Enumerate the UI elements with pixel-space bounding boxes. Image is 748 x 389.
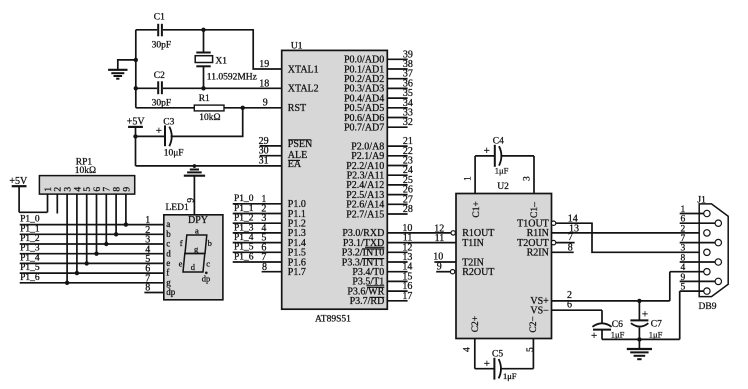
wire display dp stub [144, 283, 163, 294]
capacitor C4 [484, 137, 509, 176]
power +5V (reset) [127, 117, 146, 137]
svg-text:8: 8 [145, 283, 150, 294]
wire R1IN pin 13 to DB9 pin2 [552, 224, 704, 235]
wire C4 net right [500, 155, 534, 157]
node RP1 pin 4 junction [75, 271, 79, 275]
svg-text:18: 18 [259, 78, 269, 89]
svg-text:6: 6 [567, 300, 572, 311]
wire RST net [136, 107, 282, 109]
svg-text:P2.7/A15: P2.7/A15 [346, 209, 384, 220]
svg-text:4: 4 [463, 347, 473, 352]
node RP1 pin 5 junction [85, 261, 89, 265]
wire net P1_6 at U1 pin 7 [233, 252, 282, 263]
svg-text:3: 3 [64, 187, 74, 192]
svg-text:P1_5: P1_5 [234, 243, 254, 253]
svg-text:2: 2 [54, 187, 64, 192]
wire net P1_4 to display segment e [20, 253, 164, 265]
crystal X1 [195, 30, 227, 89]
svg-text:32: 32 [403, 117, 413, 128]
svg-text:8: 8 [262, 262, 267, 273]
svg-text:C5: C5 [492, 350, 503, 360]
capacitor C1 [152, 12, 172, 50]
wire net P1_2 to display segment c [20, 234, 164, 246]
svg-text:R1: R1 [199, 94, 210, 104]
svg-text:6: 6 [681, 215, 686, 225]
svg-text:+: + [591, 330, 597, 342]
node X1 bottom junction [201, 86, 205, 90]
wire RP1 pin 5 vertical [86, 194, 88, 263]
svg-text:9: 9 [187, 198, 197, 203]
wire C3 net right of cap [171, 108, 243, 137]
svg-text:C4: C4 [493, 137, 504, 147]
wire DB9 pin 8 stub [680, 253, 715, 263]
svg-text:e: e [179, 259, 183, 269]
svg-text:P1_2: P1_2 [20, 234, 40, 244]
svg-text:C3: C3 [163, 118, 174, 128]
svg-text:P1_4: P1_4 [20, 253, 40, 263]
wires U1 port2 pins 21-28 [387, 136, 413, 215]
svg-text:U1: U1 [291, 41, 303, 51]
svg-text:3: 3 [681, 244, 686, 254]
node ground stub junction [134, 58, 138, 62]
svg-text:4: 4 [73, 187, 83, 192]
svg-text:P1_0: P1_0 [234, 194, 254, 204]
svg-text:C6: C6 [612, 320, 623, 330]
wire DB9 pin 6 stub [680, 215, 715, 225]
svg-text:d: d [191, 262, 196, 272]
wire net P1_6 to display segment g [20, 273, 164, 285]
wire C4 net left [475, 155, 495, 157]
wire RXD to R1OUT pin 12 [387, 223, 451, 234]
power +5V (RP1) [9, 176, 28, 212]
svg-text:T1IN: T1IN [462, 238, 484, 249]
svg-text:9: 9 [263, 98, 268, 109]
svg-text:P1_6: P1_6 [20, 273, 40, 283]
svg-text:+: + [484, 358, 490, 370]
wire RP1 pin 8 vertical [115, 194, 117, 234]
wire C5 net left [475, 368, 495, 370]
svg-text:1: 1 [44, 187, 54, 192]
svg-text:10μF: 10μF [164, 149, 184, 159]
svg-text:R2IN: R2IN [527, 248, 549, 259]
wire net P1_4 at U1 pin 5 [233, 233, 282, 244]
svg-text:9: 9 [437, 262, 442, 273]
svg-text:7: 7 [681, 234, 686, 244]
svg-text:1: 1 [464, 176, 474, 181]
svg-text:LED1: LED1 [166, 203, 189, 213]
wire net P1_3 to display segment d [20, 244, 164, 256]
svg-text:P0.7/AD7: P0.7/AD7 [344, 123, 384, 134]
svg-text:2: 2 [681, 224, 686, 234]
svg-text:+: + [156, 125, 162, 137]
svg-text:9: 9 [122, 187, 132, 192]
op-amp U1 AT89S51 microcontroller [282, 41, 388, 324]
wire RP1 pin 7 vertical [105, 194, 107, 244]
svg-text:VS−: VS− [530, 306, 549, 317]
svg-text:XTAL1: XTAL1 [288, 64, 319, 75]
node RP1 pin 7 junction [104, 242, 108, 246]
wire RP1 pin 9 vertical [125, 194, 127, 225]
wire XTAL1 net top segment left of C1 [136, 29, 157, 31]
pin bubble R2OUT [450, 270, 454, 274]
svg-text:b: b [208, 238, 212, 248]
wire RP1 pin 4 vertical [76, 194, 78, 273]
svg-text:P1_6: P1_6 [234, 252, 254, 262]
svg-text:+: + [484, 145, 490, 157]
wire +5V to RP1 pin1 [19, 194, 47, 212]
svg-text:1μF: 1μF [611, 330, 625, 340]
wire U2 pin5 vertical [526, 339, 536, 369]
svg-text:g: g [166, 277, 171, 287]
svg-text:XTAL2: XTAL2 [288, 84, 319, 95]
svg-text:30pF: 30pF [152, 41, 172, 51]
svg-text:P1_1: P1_1 [234, 204, 254, 214]
wire net P1_1 at U1 pin 2 [233, 204, 282, 215]
wire U2 pin1 vertical [464, 156, 475, 194]
wire TXD to T1IN pin 11 [387, 233, 456, 244]
svg-text:DB9: DB9 [699, 302, 717, 312]
connector J1 DB9 body [699, 204, 728, 297]
svg-text:7: 7 [103, 187, 113, 192]
svg-text:8: 8 [113, 187, 123, 192]
node ground rail junction [637, 337, 641, 341]
wire net P1_5 at U1 pin 6 [233, 242, 282, 253]
svg-text:5: 5 [83, 187, 93, 192]
svg-text:1μF: 1μF [503, 371, 517, 381]
svg-text:31: 31 [259, 156, 269, 167]
svg-text:C2: C2 [154, 71, 165, 81]
wire RP1 pin 3 vertical [66, 194, 68, 283]
svg-text:R2OUT: R2OUT [462, 267, 494, 278]
node C2 junction on left vertical [134, 86, 138, 90]
ground inverted (display common) [184, 166, 205, 215]
svg-text:a: a [195, 226, 199, 236]
svg-text:dp: dp [166, 287, 176, 297]
wire XTAL1 net top segment right of C1 [163, 29, 253, 31]
wire DB9 pin 7 stub [680, 234, 715, 244]
ground bottom-right [627, 339, 652, 359]
wire C3 net left of cap [136, 135, 166, 137]
svg-text:b: b [166, 229, 171, 239]
wire DB9 pin 5 stub [680, 283, 704, 293]
svg-text:C1+: C1+ [472, 201, 482, 217]
wire U2 pin3 vertical [522, 156, 534, 194]
wire DB9 pin 4 stub [670, 263, 704, 273]
svg-text:5: 5 [526, 347, 536, 352]
svg-text:C2−: C2− [529, 316, 539, 332]
svg-text:5: 5 [681, 283, 686, 293]
svg-text:dp: dp [202, 273, 211, 283]
capacitor C3 [156, 118, 184, 159]
wire RP1 pin2 stub [56, 194, 58, 213]
svg-text:19: 19 [259, 59, 269, 70]
svg-text:P1_3: P1_3 [20, 244, 40, 254]
svg-text:10kΩ: 10kΩ [199, 113, 220, 123]
svg-text:C2+: C2+ [471, 316, 481, 332]
svg-text:P1_3: P1_3 [234, 223, 254, 233]
svg-text:30pF: 30pF [152, 98, 172, 108]
wire DB9 pin4 vertical [669, 272, 671, 301]
svg-text:1: 1 [681, 205, 686, 215]
svg-text:C1: C1 [154, 12, 165, 22]
wire R2OUT stub pin 9 [436, 262, 450, 273]
svg-text:C7: C7 [651, 320, 662, 330]
node X1 top junction [201, 28, 205, 32]
node RST junction [241, 106, 245, 110]
wire T2OUT stub pin 7 [556, 232, 575, 243]
pin bubble T2OUT [551, 240, 555, 244]
wire display pin 9 [187, 198, 197, 203]
svg-text:6: 6 [93, 187, 103, 192]
svg-text:P1_5: P1_5 [20, 263, 40, 273]
wire DB9 pin5 vertical [679, 291, 681, 339]
svg-text:c: c [206, 259, 210, 269]
wire main left vertical [135, 30, 137, 108]
svg-text:11: 11 [435, 233, 445, 244]
svg-text:a: a [166, 219, 170, 229]
capacitor C7 [630, 301, 662, 340]
svg-text:8: 8 [568, 243, 573, 254]
svg-text:f: f [180, 238, 183, 248]
wire ground stub [118, 60, 136, 69]
capacitor C5 [484, 350, 517, 382]
capacitor C2 [152, 71, 172, 108]
wire DB9 pin 3 stub [681, 244, 704, 254]
wire ALE stub [260, 155, 282, 157]
wire VS- pin 6 net [552, 300, 603, 311]
wire EA net horizontal [136, 165, 282, 167]
wire R2IN stub pin 8 [552, 243, 574, 254]
svg-text:P1_2: P1_2 [234, 214, 254, 224]
seven-segment display DPY LED1 [164, 215, 223, 300]
wire DB9 pin 1 stub [680, 205, 704, 215]
resistor R1 [194, 94, 224, 123]
node RP1 pin 8 junction [114, 232, 118, 236]
wire XTAL2 net left of C2 [136, 87, 157, 89]
svg-text:DPY: DPY [188, 215, 208, 226]
svg-text:X1: X1 [215, 56, 227, 66]
pin bubble T1OUT [551, 221, 555, 225]
svg-text:28: 28 [403, 204, 413, 215]
svg-text:P1_1: P1_1 [20, 224, 40, 234]
node VS+ / C7 junction [637, 299, 641, 303]
wire U1 pin 8 stub [262, 262, 282, 273]
svg-text:C1–: C1– [530, 202, 540, 218]
wire net P1_0 to display segment a [20, 215, 164, 227]
ground top-left [108, 70, 127, 79]
svg-text:10kΩ: 10kΩ [75, 166, 96, 176]
svg-text:+: + [642, 309, 648, 321]
node RP1 pin 3 junction [65, 281, 69, 285]
wire net P1_2 at U1 pin 3 [233, 213, 282, 224]
svg-text:f: f [166, 268, 169, 278]
svg-text:d: d [166, 248, 171, 258]
wire XTAL2 net right of C2 [163, 87, 282, 89]
node EA-display tap [193, 164, 197, 168]
svg-text:8: 8 [681, 253, 686, 263]
svg-text:RST: RST [288, 103, 306, 114]
wire ground rail [602, 338, 680, 340]
svg-text:P1_0: P1_0 [20, 215, 40, 225]
svg-text:U2: U2 [497, 182, 509, 192]
capacitor C6 [591, 310, 625, 342]
pin bubble R1OUT [451, 231, 455, 235]
wire pin19 corner down [253, 29, 282, 69]
svg-text:1μF: 1μF [495, 165, 509, 175]
svg-text:3: 3 [522, 176, 532, 181]
svg-text:P1.7: P1.7 [288, 267, 306, 278]
svg-text:J1: J1 [697, 195, 706, 205]
svg-text:11.0592MHz: 11.0592MHz [207, 73, 257, 83]
wire net P1_1 to display segment b [20, 224, 164, 236]
wire PSEN stub [260, 145, 282, 147]
node RP1 pin 9 junction [124, 222, 128, 226]
wire DB9 pin 9 stub [680, 273, 715, 283]
svg-text:AT89S51: AT89S51 [315, 314, 351, 324]
svg-text:9: 9 [681, 273, 686, 283]
wire EA net [135, 136, 137, 166]
svg-text:e: e [166, 258, 170, 268]
wire net P1_5 to display segment f [20, 263, 164, 275]
wire net P1_0 at U1 pin 1 [233, 194, 282, 205]
wire C5 net right [500, 368, 533, 370]
svg-text:PSEN: PSEN [288, 139, 312, 150]
wire T2IN stub pin 10 [433, 252, 456, 263]
node +5V junction [133, 134, 137, 138]
wire VS+ pin 2 net [552, 290, 670, 301]
svg-text:17: 17 [402, 291, 412, 302]
wire T1OUT pin 14 to DB9 pin3 [556, 214, 704, 253]
svg-text:1μF: 1μF [649, 330, 663, 340]
wires U1 port3 stub pins 12-17 and pin number labels [387, 223, 412, 302]
svg-text:4: 4 [681, 263, 686, 273]
wire net P1_3 at U1 pin 4 [233, 223, 282, 234]
op-amp U2 MAX232 [456, 182, 552, 339]
wire DB9 pin 2 stub [681, 224, 704, 234]
wire RP1 pin 6 vertical [96, 194, 98, 254]
wires U1 port0 pins 39-32 [387, 49, 413, 128]
svg-text:c: c [166, 239, 170, 249]
node RP1 pin 6 junction [94, 252, 98, 256]
resistor-pack RP1 [39, 157, 134, 194]
svg-text:P1_4: P1_4 [234, 233, 254, 243]
wire U2 pin4 vertical [463, 339, 475, 369]
